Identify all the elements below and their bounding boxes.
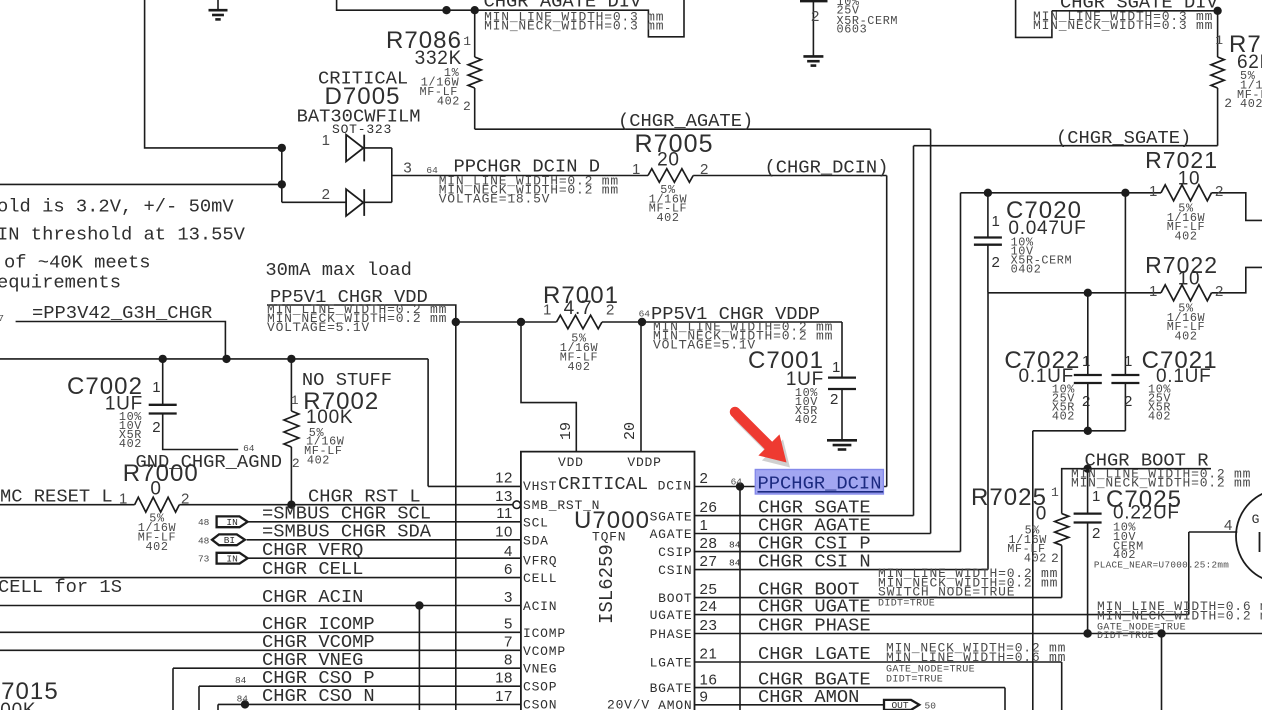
- svg-text:SCL: SCL: [523, 516, 549, 531]
- svg-text:2: 2: [700, 470, 709, 487]
- svg-text:10: 10: [495, 524, 513, 541]
- svg-text:6: 6: [504, 561, 513, 578]
- svg-text:2: 2: [992, 254, 1001, 271]
- svg-text:7: 7: [504, 634, 513, 651]
- svg-text:ACIN: ACIN: [523, 599, 557, 614]
- svg-text:2: 2: [1215, 183, 1224, 200]
- svg-text:1: 1: [1092, 488, 1101, 505]
- svg-text:MIN_NECK_WIDTH=0.3 mm: MIN_NECK_WIDTH=0.3 mm: [484, 19, 664, 34]
- svg-text:VOLTAGE=18.5V: VOLTAGE=18.5V: [439, 192, 551, 207]
- svg-text:VOLTAGE=5.1V: VOLTAGE=5.1V: [653, 337, 756, 352]
- svg-text:ICOMP: ICOMP: [523, 626, 566, 641]
- svg-text:BGATE: BGATE: [650, 681, 693, 696]
- svg-text:2: 2: [1215, 283, 1224, 300]
- svg-text:26: 26: [700, 499, 718, 516]
- svg-text:84: 84: [237, 694, 249, 705]
- svg-text:VNEG: VNEG: [523, 662, 557, 677]
- svg-text:402: 402: [795, 413, 818, 427]
- svg-text:CHGR CSO N: CHGR CSO N: [262, 685, 375, 707]
- svg-text:=PP3V42_G3H_CHGR: =PP3V42_G3H_CHGR: [32, 302, 212, 324]
- svg-text:84: 84: [235, 675, 247, 686]
- svg-text:48: 48: [198, 535, 210, 546]
- svg-text:2: 2: [1082, 393, 1091, 410]
- svg-text:CHGR CELL: CHGR CELL: [262, 558, 363, 580]
- svg-text:0402: 0402: [1011, 263, 1042, 277]
- svg-text:CHGR LGATE: CHGR LGATE: [758, 643, 871, 665]
- svg-text:3: 3: [403, 160, 412, 177]
- svg-text:2: 2: [292, 456, 300, 471]
- svg-text:84: 84: [729, 540, 741, 551]
- svg-text:2: 2: [322, 186, 331, 203]
- svg-text:1: 1: [1149, 283, 1158, 300]
- svg-text:VFRQ: VFRQ: [523, 554, 557, 569]
- svg-text:402: 402: [567, 360, 590, 374]
- svg-text:OUT: OUT: [891, 700, 908, 710]
- svg-text:402: 402: [656, 211, 679, 225]
- svg-text:64: 64: [426, 165, 438, 176]
- svg-text:11: 11: [496, 505, 513, 522]
- svg-text:1: 1: [832, 359, 841, 376]
- svg-text:10: 10: [1178, 169, 1201, 190]
- svg-text:IN: IN: [226, 517, 237, 528]
- svg-text:4: 4: [504, 543, 513, 560]
- svg-text:402: 402: [1024, 552, 1047, 566]
- svg-text:402: 402: [1240, 97, 1262, 111]
- svg-text:21: 21: [700, 646, 718, 663]
- svg-text:CHGR PHASE: CHGR PHASE: [758, 615, 871, 637]
- svg-text:UGATE: UGATE: [650, 608, 693, 623]
- svg-text:CSIN: CSIN: [658, 563, 692, 578]
- svg-text:13: 13: [495, 488, 513, 505]
- svg-text:402: 402: [1174, 330, 1197, 344]
- svg-text:402: 402: [119, 437, 142, 451]
- svg-text:2: 2: [1224, 96, 1232, 111]
- svg-text:VHST: VHST: [523, 479, 557, 494]
- svg-text:SOT-323: SOT-323: [332, 122, 392, 137]
- svg-text:50: 50: [925, 700, 937, 710]
- svg-text:CHGR CSI N: CHGR CSI N: [758, 551, 871, 573]
- svg-text:1: 1: [322, 132, 331, 149]
- svg-text:12: 12: [495, 470, 513, 487]
- svg-text:BI: BI: [224, 535, 235, 546]
- svg-text:IN threshold at 13.55V: IN threshold at 13.55V: [0, 224, 246, 246]
- svg-text:1: 1: [119, 490, 128, 507]
- svg-text:1: 1: [152, 379, 161, 396]
- svg-text:AGATE: AGATE: [650, 527, 693, 542]
- svg-text:16: 16: [700, 672, 718, 689]
- svg-text:27: 27: [700, 553, 718, 570]
- svg-text:1: 1: [1215, 33, 1223, 48]
- svg-text:2: 2: [700, 161, 709, 178]
- svg-text:2: 2: [811, 8, 820, 25]
- svg-text:64: 64: [639, 309, 651, 320]
- svg-text:25: 25: [700, 581, 718, 598]
- svg-text:1: 1: [543, 302, 552, 319]
- svg-text:MIN_NECK_WIDTH=0.2 mm: MIN_NECK_WIDTH=0.2 mm: [1097, 609, 1262, 624]
- svg-text:of ~40K meets: of ~40K meets: [4, 252, 151, 274]
- svg-text:402: 402: [437, 95, 460, 109]
- svg-text:17: 17: [495, 688, 513, 705]
- svg-text:64: 64: [731, 477, 743, 488]
- svg-text:ISL6259: ISL6259: [596, 544, 618, 624]
- svg-text:8: 8: [504, 652, 513, 669]
- svg-text:1: 1: [1051, 485, 1059, 500]
- svg-text:30mA max load: 30mA max load: [265, 259, 412, 281]
- svg-text:1: 1: [291, 393, 299, 408]
- svg-text:2: 2: [1092, 525, 1101, 542]
- svg-text:CSON: CSON: [523, 698, 557, 710]
- svg-text:1: 1: [700, 517, 709, 534]
- svg-text:402: 402: [1052, 410, 1075, 424]
- svg-text:0: 0: [1036, 504, 1047, 525]
- svg-text:PLACE_NEAR=U7000.25:2mm: PLACE_NEAR=U7000.25:2mm: [1094, 560, 1229, 571]
- svg-text:1: 1: [632, 161, 641, 178]
- svg-text:old is 3.2V, +/- 50mV: old is 3.2V, +/- 50mV: [0, 196, 234, 218]
- svg-text:PHASE: PHASE: [650, 627, 693, 642]
- svg-text:9: 9: [700, 689, 709, 706]
- svg-text:BOOT: BOOT: [658, 591, 692, 606]
- svg-text:(CHGR_DCIN): (CHGR_DCIN): [765, 157, 889, 179]
- svg-text:3: 3: [504, 589, 513, 606]
- svg-text:CRITICAL: CRITICAL: [558, 473, 648, 495]
- svg-text:CELL for 1S: CELL for 1S: [0, 576, 122, 598]
- svg-text:100K: 100K: [306, 407, 353, 428]
- svg-text:DIDT=TRUE: DIDT=TRUE: [1097, 631, 1154, 642]
- svg-text:402: 402: [145, 540, 168, 554]
- svg-text:1: 1: [1124, 353, 1133, 370]
- svg-text:VDDP: VDDP: [627, 455, 661, 470]
- svg-text:CSIP: CSIP: [658, 545, 692, 560]
- svg-text:SWITCH_NODE=TRUE: SWITCH_NODE=TRUE: [878, 585, 1015, 600]
- svg-text:MIN_NECK_WIDTH=0.3 mm: MIN_NECK_WIDTH=0.3 mm: [1033, 18, 1213, 33]
- svg-text:28: 28: [700, 535, 718, 552]
- svg-text:5: 5: [504, 616, 513, 633]
- svg-text:SDA: SDA: [523, 534, 549, 549]
- svg-text:0: 0: [150, 479, 161, 500]
- svg-text:DCIN: DCIN: [658, 479, 692, 494]
- svg-text:2: 2: [463, 99, 471, 114]
- svg-text:402: 402: [1174, 230, 1197, 244]
- svg-text:2: 2: [830, 391, 839, 408]
- svg-text:2: 2: [606, 302, 615, 319]
- svg-text:23: 23: [700, 617, 718, 634]
- svg-text:73: 73: [198, 554, 210, 565]
- svg-text:DIDT=TRUE: DIDT=TRUE: [886, 675, 943, 686]
- svg-text:1: 1: [463, 34, 471, 49]
- svg-text:SGATE: SGATE: [650, 510, 693, 525]
- svg-text:402: 402: [307, 454, 330, 468]
- svg-text:CELL: CELL: [523, 571, 557, 586]
- svg-text:TQFN: TQFN: [592, 530, 626, 545]
- svg-text:10: 10: [1178, 269, 1201, 290]
- svg-text:AMON: AMON: [658, 698, 692, 710]
- svg-text:DIDT=TRUE: DIDT=TRUE: [878, 599, 935, 610]
- svg-text:2: 2: [1051, 551, 1059, 566]
- svg-text:1: 1: [1149, 183, 1158, 200]
- svg-text:IN: IN: [226, 554, 237, 565]
- svg-text:VOLTAGE=5.1V: VOLTAGE=5.1V: [267, 320, 370, 335]
- svg-text:VDD: VDD: [558, 455, 584, 470]
- svg-text:20V/V: 20V/V: [607, 698, 650, 710]
- svg-text:2: 2: [1124, 393, 1133, 410]
- svg-text:VCOMP: VCOMP: [523, 644, 566, 659]
- svg-text:0603: 0603: [837, 23, 868, 37]
- svg-text:(CHGR_SGATE): (CHGR_SGATE): [1056, 127, 1191, 149]
- svg-text:4: 4: [1224, 517, 1233, 534]
- svg-text:402: 402: [1148, 410, 1171, 424]
- svg-text:48: 48: [198, 517, 210, 528]
- svg-text:2: 2: [152, 419, 161, 436]
- svg-text:24: 24: [700, 598, 718, 615]
- svg-text:84: 84: [729, 558, 741, 569]
- svg-text:CHGR ACIN: CHGR ACIN: [262, 586, 363, 608]
- svg-text:SMC RESET L: SMC RESET L: [0, 486, 113, 508]
- svg-text:20: 20: [622, 422, 639, 440]
- svg-text:1: 1: [992, 213, 1001, 230]
- svg-text:7: 7: [0, 313, 4, 324]
- svg-text:LGATE: LGATE: [650, 656, 693, 671]
- svg-text:18: 18: [495, 670, 513, 687]
- svg-text:100K: 100K: [0, 700, 36, 710]
- svg-text:equirements: equirements: [0, 272, 121, 294]
- svg-text:19: 19: [558, 422, 575, 440]
- svg-text:G: G: [1252, 512, 1261, 527]
- svg-text:2: 2: [181, 490, 190, 507]
- svg-text:4.7: 4.7: [564, 298, 593, 319]
- svg-text:CHGR AMON: CHGR AMON: [758, 686, 859, 708]
- svg-text:1: 1: [1082, 353, 1091, 370]
- svg-text:MIN_LINE_WIDTH=0.6 mm: MIN_LINE_WIDTH=0.6 mm: [886, 650, 1066, 665]
- svg-text:CSOP: CSOP: [523, 680, 557, 695]
- svg-text:(CHGR_AGATE): (CHGR_AGATE): [618, 110, 753, 132]
- svg-text:20: 20: [657, 150, 680, 171]
